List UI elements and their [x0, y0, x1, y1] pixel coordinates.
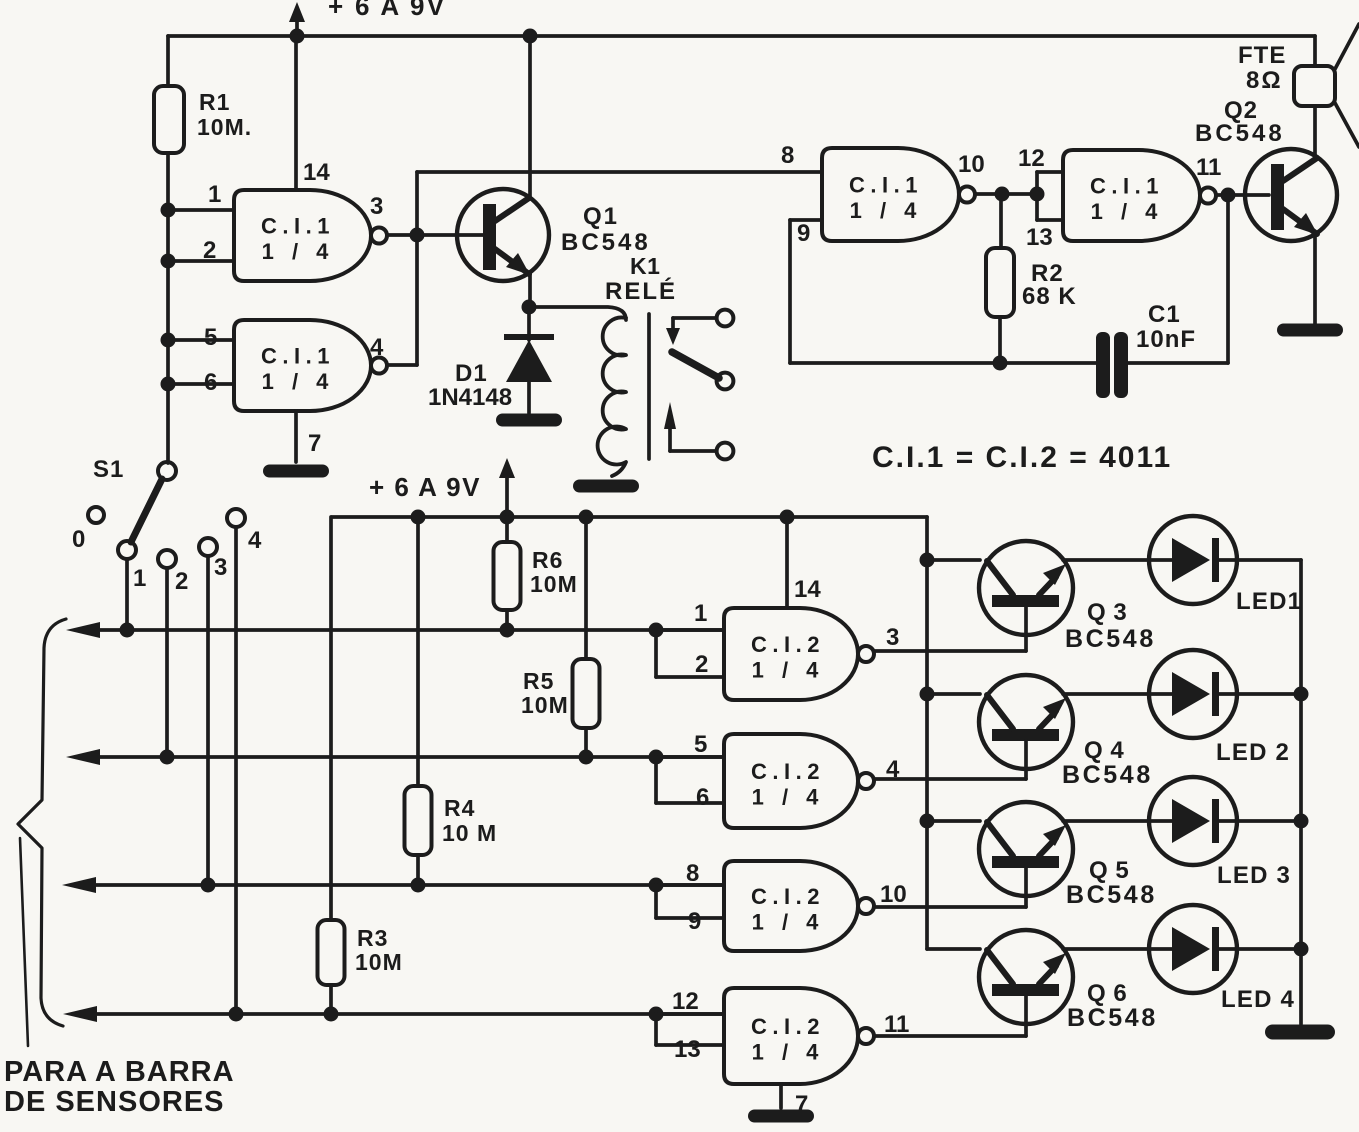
- label pin11b: [884, 1011, 909, 1038]
- label PARA A BARRA: [4, 1056, 235, 1118]
- svg-text:2: 2: [175, 568, 188, 595]
- node lineB R5: [579, 750, 594, 765]
- svg-text:R4: R4: [444, 795, 475, 821]
- wire R2 top: [999, 194, 1003, 248]
- svg-text:DE SENSORES: DE SENSORES: [4, 1086, 225, 1118]
- relay K1 frame: [647, 314, 651, 459]
- wire R5 branch: [584, 517, 588, 757]
- wire LED4 to rail: [1237, 947, 1301, 951]
- svg-text:C.I.2: C.I.2: [751, 632, 825, 657]
- power arrow +6A9V mid: [499, 458, 515, 517]
- svg-text:Q 3: Q 3: [1087, 599, 1127, 626]
- svg-text:8Ω: 8Ω: [1246, 67, 1283, 94]
- wire emitter supply: [927, 517, 980, 949]
- wire Q3 emitter to LED: [1063, 558, 1149, 562]
- switch pole 2: [158, 550, 176, 568]
- svg-text:BC548: BC548: [1062, 761, 1153, 789]
- node lineD gate: [649, 1007, 664, 1022]
- resistor R5: [573, 659, 600, 728]
- svg-text:8: 8: [781, 142, 794, 169]
- wire supply Q3: [927, 558, 980, 562]
- sensor line D: [63, 1006, 724, 1022]
- wire pole4: [234, 527, 238, 1014]
- resistor R4: [405, 786, 432, 855]
- svg-text:C.I.1: C.I.1: [1090, 174, 1164, 199]
- svg-text:13: 13: [674, 1036, 701, 1063]
- node supply Q3: [920, 553, 935, 568]
- svg-text:1: 1: [694, 600, 707, 627]
- svg-text:68 K: 68 K: [1022, 283, 1077, 310]
- junction on top rail at x530: [523, 29, 538, 44]
- relay contact top: [666, 310, 733, 345]
- label pin12: [1018, 145, 1045, 172]
- sensor line B: [66, 749, 724, 765]
- wire Q5 emitter to LED: [1063, 819, 1149, 823]
- label pin9b: [688, 908, 701, 935]
- wire out3: [874, 649, 1026, 653]
- power rail +6A9V (top): [168, 34, 1315, 38]
- label pin7: [308, 430, 321, 457]
- label K1: [605, 253, 677, 305]
- nand gate U1d C.I.1: [1063, 150, 1216, 241]
- wire D1 top: [527, 307, 531, 340]
- label R5: [521, 668, 569, 718]
- wire pin2 bracket: [656, 630, 724, 677]
- svg-text:1 / 4: 1 / 4: [262, 239, 335, 264]
- wire gate1 out to base: [387, 233, 484, 237]
- transistor Q5: [979, 802, 1073, 907]
- node lineB pole2: [160, 750, 175, 765]
- svg-text:13: 13: [1026, 224, 1053, 251]
- svg-text:7: 7: [795, 1091, 808, 1118]
- wire R2 bottom: [998, 317, 1002, 363]
- wire pin14: [294, 36, 298, 190]
- node supply Q4: [920, 687, 935, 702]
- nand gate U1c C.I.1: [822, 148, 975, 241]
- node out11 junction: [1221, 188, 1236, 203]
- node emitter junction: [522, 300, 537, 315]
- label pin5b: [694, 731, 707, 758]
- wire pin5: [168, 338, 234, 342]
- label Q5: [1066, 857, 1157, 909]
- wire pole2: [165, 568, 169, 757]
- svg-text:BC548: BC548: [1066, 881, 1157, 909]
- label R3: [355, 925, 403, 975]
- wire emitter to coil: [529, 307, 626, 320]
- label R1: [197, 89, 252, 140]
- wire out10b: [874, 905, 1026, 909]
- switch S1 top terminal: [158, 462, 176, 480]
- svg-text:10M.: 10M.: [197, 114, 252, 140]
- label LED3: [1217, 862, 1291, 889]
- label pos0: [72, 526, 85, 553]
- label S1: [93, 456, 124, 483]
- node lineB gate: [649, 750, 664, 765]
- svg-text:4: 4: [370, 334, 384, 361]
- label Q6: [1067, 980, 1158, 1032]
- svg-text:+ 6 A 9V: + 6 A 9V: [369, 472, 481, 502]
- svg-text:D1: D1: [455, 360, 488, 387]
- svg-text:C.I.1: C.I.1: [261, 344, 335, 369]
- label pin7b: [795, 1091, 808, 1118]
- label +6A9V mid: [369, 472, 481, 502]
- wire pin1: [168, 208, 234, 212]
- resistor R1: [154, 86, 184, 153]
- svg-text:LED1: LED1: [1236, 588, 1302, 615]
- svg-text:1 / 4: 1 / 4: [850, 198, 923, 223]
- svg-text:C.I.1: C.I.1: [849, 173, 923, 198]
- svg-text:10: 10: [880, 881, 907, 908]
- label Q2: [1195, 97, 1285, 147]
- wire R4 branch: [416, 517, 420, 885]
- wire Q2 collector: [1313, 106, 1317, 157]
- nand gate U2d C.I.2: [724, 988, 874, 1084]
- node rail LED4: [1294, 942, 1309, 957]
- svg-text:C.I.2: C.I.2: [751, 1014, 825, 1039]
- wire rail to speaker: [1313, 36, 1317, 66]
- wire pin8 lineC ext: [656, 883, 724, 887]
- node supply Q5: [920, 814, 935, 829]
- label Q4: [1062, 737, 1153, 789]
- svg-text:+ 6 A 9V: + 6 A 9V: [328, 0, 446, 21]
- switch pole 3: [199, 538, 217, 556]
- resistor R2: [986, 248, 1014, 317]
- sensor line A: [66, 622, 724, 638]
- led LED3: [1149, 777, 1237, 865]
- node lineD R3: [324, 1007, 339, 1022]
- label +6A9V top: [328, 0, 446, 21]
- node lineA R6: [500, 623, 515, 638]
- svg-text:BC548: BC548: [561, 229, 651, 256]
- wire pin13 bracket: [656, 1014, 724, 1045]
- resistor R3: [318, 920, 345, 985]
- node lineC R4: [411, 878, 426, 893]
- label pin6: [204, 369, 217, 396]
- wire pole1: [125, 559, 129, 630]
- wire pin12-13 tie: [1037, 172, 1063, 220]
- led LED2: [1149, 650, 1237, 738]
- svg-text:C.I.2: C.I.2: [751, 884, 825, 909]
- svg-text:1: 1: [133, 565, 146, 592]
- svg-text:10M: 10M: [530, 571, 578, 597]
- svg-text:11: 11: [1196, 154, 1221, 181]
- svg-text:1 / 4: 1 / 4: [1091, 199, 1164, 224]
- wire out11b: [874, 1034, 1026, 1038]
- svg-text:3: 3: [370, 193, 383, 220]
- node pin5 junction: [161, 333, 176, 348]
- svg-text:14: 14: [794, 576, 821, 603]
- relay contact mid: [717, 373, 734, 390]
- ground relay coil: [573, 480, 639, 493]
- wire pin5 lineB ext: [656, 755, 724, 759]
- svg-text:Q1: Q1: [583, 203, 619, 230]
- svg-text:0: 0: [72, 526, 85, 553]
- relay K1 coil: [598, 317, 626, 476]
- label pin14 top: [303, 159, 330, 186]
- wire C1 right vertical: [1128, 195, 1228, 363]
- label pin4b: [886, 756, 900, 783]
- node lineC gate: [649, 878, 664, 893]
- label LED4: [1221, 986, 1295, 1013]
- svg-text:2: 2: [695, 651, 708, 678]
- wire Q4 emitter to LED: [1063, 692, 1149, 696]
- transistor Q2: [1245, 149, 1337, 241]
- svg-text:1: 1: [208, 181, 221, 208]
- transistor Q3: [979, 541, 1073, 651]
- node lineD pole4: [229, 1007, 244, 1022]
- node out10 junction: [995, 187, 1010, 202]
- wire pin9: [790, 220, 822, 363]
- svg-text:12: 12: [672, 988, 699, 1015]
- node pin1213 junction: [1030, 187, 1045, 202]
- wire out11: [1216, 193, 1269, 197]
- svg-text:1 / 4: 1 / 4: [262, 369, 335, 394]
- ground D1: [496, 414, 562, 427]
- wire pin6 bracket: [656, 757, 724, 803]
- wire R3 branch: [329, 517, 333, 1014]
- svg-text:14: 14: [303, 159, 330, 186]
- label pin3: [370, 193, 383, 220]
- svg-text:PARA A BARRA: PARA A BARRA: [4, 1056, 235, 1088]
- node pin2 junction: [161, 254, 176, 269]
- node rail R6: [500, 510, 515, 525]
- svg-text:6: 6: [696, 784, 709, 811]
- svg-text:1 / 4: 1 / 4: [752, 1040, 825, 1065]
- wire junction up to pin8 line: [415, 172, 419, 235]
- label pin6b: [696, 784, 709, 811]
- node rail R4: [411, 510, 426, 525]
- svg-text:Q 4: Q 4: [1084, 737, 1124, 764]
- svg-text:FTE: FTE: [1238, 42, 1286, 69]
- wire pin6: [168, 382, 234, 386]
- svg-text:5: 5: [694, 731, 707, 758]
- svg-text:12: 12: [1018, 145, 1045, 172]
- svg-text:Q 5: Q 5: [1089, 857, 1129, 884]
- svg-text:C1: C1: [1148, 301, 1181, 328]
- wire pin7b stem: [779, 1084, 783, 1108]
- label LED1: [1236, 588, 1302, 615]
- label pin5: [204, 324, 217, 351]
- svg-text:R1: R1: [199, 89, 230, 115]
- svg-text:C.I.2: C.I.2: [751, 759, 825, 784]
- svg-text:10M: 10M: [521, 692, 569, 718]
- svg-text:2: 2: [203, 237, 216, 264]
- sensor line C: [62, 877, 724, 893]
- svg-text:LED 3: LED 3: [1217, 862, 1291, 889]
- label pin4: [370, 334, 384, 361]
- led LED1: [1149, 516, 1237, 604]
- node pin6 junction: [161, 377, 176, 392]
- svg-text:1N4148: 1N4148: [428, 384, 512, 411]
- svg-text:1 / 4: 1 / 4: [752, 910, 825, 935]
- nand gate U2a C.I.2: [724, 608, 874, 700]
- switch pole 1: [118, 541, 136, 559]
- led LED4: [1149, 905, 1237, 993]
- label D1: [428, 360, 512, 411]
- nand gate U1a C.I.1: [234, 190, 387, 281]
- svg-text:R6: R6: [532, 547, 563, 573]
- svg-text:5: 5: [204, 324, 217, 351]
- svg-text:BC548: BC548: [1195, 120, 1285, 147]
- label LED2: [1216, 739, 1290, 766]
- svg-text:K1: K1: [630, 253, 660, 279]
- label FTE: [1238, 42, 1286, 94]
- label pin8: [781, 142, 794, 169]
- ground Q2: [1277, 324, 1343, 337]
- label pin3b: [886, 624, 899, 651]
- wire right rail: [1299, 560, 1303, 1024]
- capacitor C1: [1096, 332, 1128, 398]
- node rail pin14b: [780, 510, 795, 525]
- wire Q6 emitter to LED: [1063, 947, 1149, 951]
- label pos2: [175, 568, 188, 595]
- wire supply Q4: [927, 692, 980, 696]
- label Q1: [561, 203, 651, 256]
- label pin8b: [686, 860, 699, 887]
- switch pos 0: [88, 507, 104, 523]
- ground gate U1b pin7: [263, 465, 329, 478]
- wire Q1 collector: [528, 36, 532, 198]
- nand gate U2c C.I.2: [724, 861, 874, 951]
- svg-text:BC548: BC548: [1065, 625, 1156, 653]
- relay lever: [672, 352, 719, 378]
- node rail LED2: [1294, 687, 1309, 702]
- svg-text:RELÉ: RELÉ: [605, 277, 677, 305]
- wire LED3 to rail: [1237, 819, 1301, 823]
- wire LED1 to rail: [1237, 558, 1301, 562]
- junction on top rail at x297: [290, 29, 305, 44]
- label C1: [1136, 301, 1196, 353]
- svg-text:9: 9: [688, 908, 701, 935]
- svg-text:10nF: 10nF: [1136, 326, 1196, 353]
- wire supply Q5: [927, 819, 980, 823]
- wire pin7 stem: [294, 411, 298, 462]
- label pin10b: [880, 881, 907, 908]
- note C.I.1 = C.I.2 = 4011: [872, 441, 1172, 474]
- speaker FTE: [1294, 24, 1359, 147]
- svg-text:C.I.1: C.I.1: [261, 214, 335, 239]
- svg-text:R3: R3: [357, 925, 388, 951]
- label pin1: [208, 181, 221, 208]
- switch pole 4: [227, 509, 245, 527]
- label R2: [1022, 260, 1077, 310]
- svg-text:10M: 10M: [355, 949, 403, 975]
- svg-text:LED 4: LED 4: [1221, 986, 1295, 1013]
- svg-text:LED 2: LED 2: [1216, 739, 1290, 766]
- svg-text:S1: S1: [93, 456, 124, 483]
- wire pin12 lineD ext: [656, 1012, 724, 1016]
- node rail LED3: [1294, 814, 1309, 829]
- label pin1b: [694, 600, 707, 627]
- label pos4: [248, 527, 262, 554]
- wire pin1 lineA ext: [656, 628, 724, 632]
- svg-text:R5: R5: [523, 668, 554, 694]
- node base junction: [410, 228, 425, 243]
- node lineC pole3: [201, 878, 216, 893]
- svg-text:1 / 4: 1 / 4: [752, 785, 825, 810]
- power arrow +6A9V top: [289, 2, 305, 36]
- wire pin9 bracket: [656, 885, 724, 918]
- ground right rail: [1265, 1025, 1335, 1040]
- label R6: [530, 547, 578, 597]
- wire out10: [975, 192, 1037, 196]
- wire R6 branch: [505, 517, 509, 630]
- wire pin8 long: [417, 170, 822, 174]
- wire gate2 out to junction: [387, 235, 417, 365]
- node rail R5: [579, 510, 594, 525]
- label R4: [442, 795, 497, 846]
- node lineA gate: [649, 623, 664, 638]
- label pin12b: [672, 988, 699, 1015]
- power rail +6A9V (mid): [332, 515, 927, 519]
- svg-text:7: 7: [308, 430, 321, 457]
- svg-text:9: 9: [797, 220, 810, 247]
- label pin2: [203, 237, 216, 264]
- wire LED2 to rail: [1237, 692, 1301, 696]
- label pin13b: [674, 1036, 701, 1063]
- nand gate U2b C.I.2: [724, 734, 874, 828]
- svg-text:8: 8: [686, 860, 699, 887]
- wire feedback bottom: [790, 361, 1097, 365]
- svg-text:3: 3: [886, 624, 899, 651]
- wire Q2 emitter: [1313, 233, 1317, 324]
- ground gate U2d pin7: [748, 1110, 814, 1123]
- wire left rail mid: [166, 153, 170, 463]
- wire pin14b: [785, 517, 789, 608]
- label pin2b: [695, 651, 708, 678]
- svg-text:Q 6: Q 6: [1087, 980, 1127, 1007]
- node R2 bottom junction: [993, 356, 1008, 371]
- svg-text:C.I.1 = C.I.2 = 4011: C.I.1 = C.I.2 = 4011: [872, 441, 1172, 474]
- svg-text:BC548: BC548: [1067, 1004, 1158, 1032]
- wire Q1 emitter down: [528, 272, 532, 307]
- wire pin2: [168, 259, 234, 263]
- diode D1: [504, 334, 554, 413]
- switch S1 lever: [131, 479, 162, 542]
- svg-text:6: 6: [204, 369, 217, 396]
- label pos3: [214, 554, 227, 581]
- label pin14b: [794, 576, 821, 603]
- svg-text:11: 11: [884, 1011, 909, 1038]
- svg-text:3: 3: [214, 554, 227, 581]
- wire out4: [874, 777, 1026, 781]
- label pin10: [958, 151, 985, 178]
- relay contact bottom: [670, 443, 733, 460]
- brace sensors: [18, 619, 66, 1046]
- svg-text:10 M: 10 M: [442, 820, 497, 846]
- node lineA pole1: [120, 623, 135, 638]
- relay arrow: [664, 402, 676, 451]
- label pin9: [797, 220, 810, 247]
- svg-text:4: 4: [248, 527, 262, 554]
- node pin1 junction: [161, 203, 176, 218]
- label Q3: [1065, 599, 1156, 653]
- svg-text:1 / 4: 1 / 4: [752, 658, 825, 683]
- nand gate U1b C.I.1: [234, 320, 387, 411]
- resistor R6: [494, 542, 521, 610]
- transistor Q4: [979, 675, 1073, 779]
- svg-text:10: 10: [958, 151, 985, 178]
- transistor Q1: [457, 189, 549, 281]
- transistor Q6: [979, 930, 1073, 1036]
- label pos1: [133, 565, 146, 592]
- label pin13: [1026, 224, 1053, 251]
- label pin11: [1196, 154, 1221, 181]
- wire left rail upper: [166, 36, 170, 86]
- wire pole3: [206, 556, 210, 885]
